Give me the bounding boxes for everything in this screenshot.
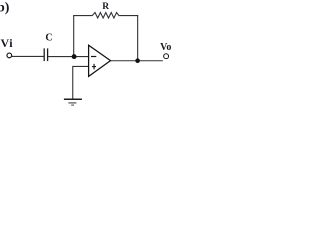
svg-text:Vo: Vo <box>160 42 171 53</box>
svg-text:R: R <box>102 2 109 12</box>
svg-text:b): b) <box>0 0 10 15</box>
svg-text:Vi: Vi <box>1 36 14 50</box>
svg-text:C: C <box>45 32 52 43</box>
